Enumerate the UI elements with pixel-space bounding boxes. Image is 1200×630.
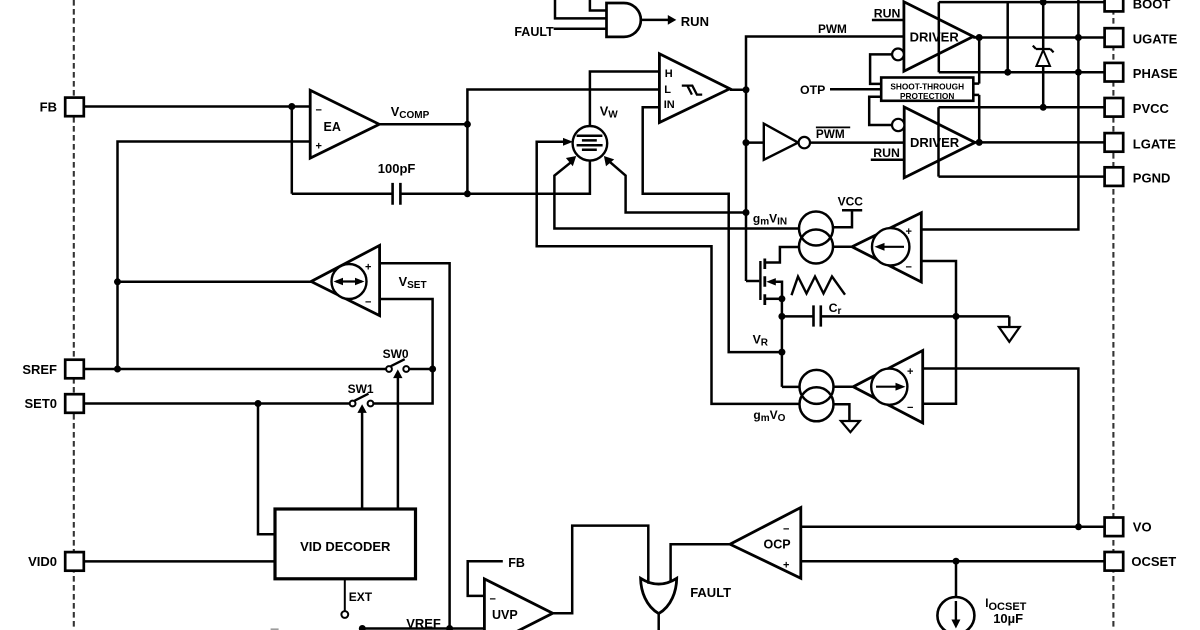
- svg-text:VREF: VREF: [406, 616, 441, 630]
- svg-text:RUN: RUN: [873, 146, 900, 160]
- svg-text:−: −: [316, 105, 322, 117]
- svg-text:H: H: [665, 68, 673, 80]
- svg-text:100pF: 100pF: [378, 161, 416, 176]
- svg-text:+: +: [316, 141, 322, 153]
- svg-text:BOOT: BOOT: [1133, 0, 1171, 11]
- svg-text:FB: FB: [508, 556, 525, 570]
- svg-text:PROTECTION: PROTECTION: [900, 91, 954, 101]
- svg-text:+: +: [365, 262, 371, 274]
- svg-text:PGND: PGND: [1133, 171, 1171, 186]
- svg-text:DRIVER: DRIVER: [910, 30, 960, 45]
- svg-text:EXT: EXT: [349, 590, 373, 604]
- svg-text:RUN: RUN: [874, 7, 901, 21]
- svg-text:−: −: [906, 262, 912, 274]
- svg-text:PVCC: PVCC: [1133, 101, 1170, 116]
- svg-text:−: −: [365, 297, 371, 309]
- svg-text:SW1: SW1: [348, 382, 374, 396]
- svg-text:+: +: [906, 226, 912, 238]
- svg-text:IN: IN: [664, 99, 675, 111]
- svg-text:−: −: [783, 524, 789, 536]
- svg-text:EA: EA: [324, 120, 341, 134]
- svg-text:LGATE: LGATE: [1133, 136, 1176, 151]
- svg-text:VCC: VCC: [838, 194, 864, 208]
- svg-text:OCP: OCP: [764, 537, 791, 551]
- svg-text:RUN: RUN: [681, 14, 709, 29]
- svg-text:SREF: SREF: [22, 362, 57, 377]
- svg-text:FAULT: FAULT: [690, 585, 731, 600]
- svg-text:OTP: OTP: [800, 83, 825, 97]
- svg-text:PWM: PWM: [816, 127, 845, 141]
- svg-text:−: −: [490, 594, 496, 606]
- svg-text:SET0: SET0: [24, 396, 57, 411]
- svg-text:DRIVER: DRIVER: [910, 135, 960, 150]
- svg-text:FB: FB: [40, 100, 57, 115]
- svg-text:VO: VO: [1133, 520, 1152, 535]
- svg-text:L: L: [664, 84, 671, 96]
- svg-text:+: +: [907, 366, 913, 378]
- svg-text:PHASE: PHASE: [1133, 66, 1178, 81]
- svg-text:FAULT: FAULT: [514, 25, 554, 39]
- svg-text:PWM: PWM: [818, 22, 847, 36]
- svg-text:UGATE: UGATE: [1133, 31, 1178, 46]
- svg-text:OCSET: OCSET: [1131, 554, 1176, 569]
- svg-text:UVP: UVP: [492, 608, 518, 622]
- svg-text:+: +: [783, 560, 789, 572]
- svg-text:10µF: 10µF: [993, 611, 1023, 626]
- svg-text:VID0: VID0: [28, 554, 57, 569]
- svg-text:−: −: [907, 402, 913, 414]
- svg-text:SW0: SW0: [383, 347, 409, 361]
- svg-text:VID DECODER: VID DECODER: [300, 539, 391, 554]
- svg-text:SHOOT-THROUGH: SHOOT-THROUGH: [890, 81, 964, 91]
